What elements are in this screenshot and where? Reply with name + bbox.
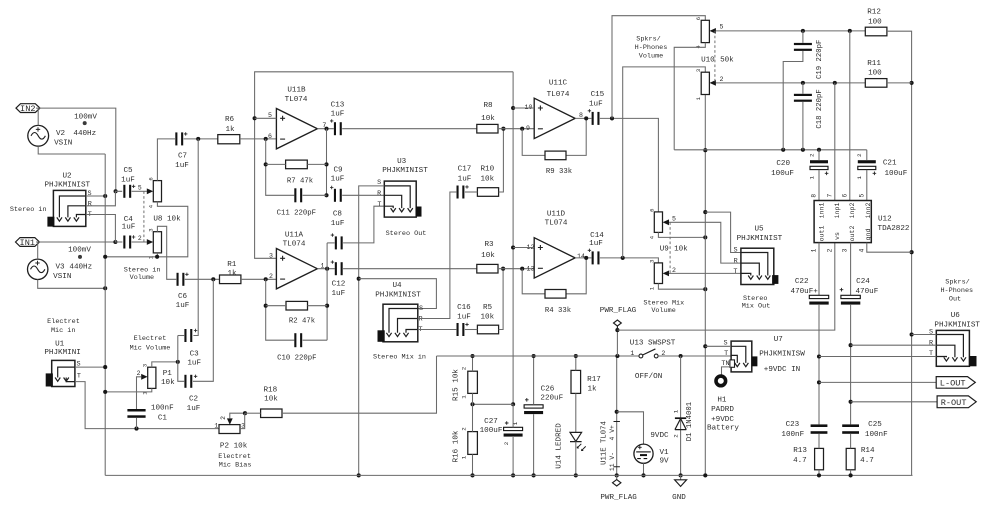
capacitor C11: [294, 188, 302, 202]
svg-text:C24: C24: [856, 278, 870, 286]
pin label 7: [827, 194, 834, 198]
label U7 PHJKMINISW: [759, 351, 805, 359]
source V3 VSIN: [28, 242, 108, 290]
resistor R18: [261, 409, 282, 418]
svg-text:1k: 1k: [587, 386, 597, 394]
label C3: [190, 350, 200, 358]
wire U9a bottom to spine: [658, 232, 707, 239]
label P2 Electret: [218, 453, 251, 461]
svg-text:1: 1: [808, 176, 815, 180]
pin label 2 R15: [461, 366, 468, 370]
capacitor C22: [809, 295, 828, 304]
svg-text:PADRD: PADRD: [711, 406, 734, 414]
svg-text:100: 100: [868, 70, 882, 78]
resistor R7: [286, 160, 308, 169]
wire R15 top: [470, 354, 474, 371]
svg-text:C22: C22: [795, 278, 809, 286]
wire C21 top: [866, 150, 868, 160]
label U4 PHJKMINIST: [375, 291, 421, 299]
label C12: [332, 281, 346, 289]
svg-text:1uF: 1uF: [121, 177, 135, 185]
svg-text:Mic in: Mic in: [51, 327, 75, 335]
svg-text:100mV: 100mV: [68, 246, 91, 254]
jack U7 DC in: [730, 341, 757, 372]
svg-text:U5: U5: [754, 225, 764, 233]
input flag IN2: [16, 104, 40, 115]
wire U11D feedback loop: [522, 258, 586, 294]
svg-text:1: 1: [214, 422, 218, 429]
svg-text:1k: 1k: [225, 126, 235, 134]
pin label 1 U12: [811, 248, 818, 252]
resistor R3: [477, 264, 498, 273]
potentiometer U8B: [147, 228, 162, 259]
wire U8a top to C7: [157, 139, 175, 181]
wire R5 riser to pin13 line: [499, 267, 506, 330]
svg-text:PHJKMINIST: PHJKMINIST: [382, 167, 428, 175]
svg-text:R10: R10: [480, 166, 494, 174]
svg-text:vs: vs: [834, 232, 841, 240]
label C9: [333, 167, 343, 175]
pin label T U1: [77, 372, 81, 380]
label U1 PHJKMINI: [44, 349, 80, 357]
label VSIN: [54, 140, 72, 148]
wire C22 chain down: [817, 305, 821, 425]
label V3 VSIN: [53, 273, 71, 281]
label R10: [480, 166, 494, 174]
svg-text:R5: R5: [483, 304, 493, 312]
svg-text:C17: C17: [458, 166, 472, 174]
capacitor C3: [184, 329, 197, 342]
svg-text:2: 2: [220, 416, 227, 420]
svg-text:Spkrs/: Spkrs/: [636, 35, 660, 43]
wire VS line to U12 pin2: [617, 243, 834, 331]
label R3: [484, 241, 494, 249]
label R3 10k: [481, 252, 495, 260]
jack U5 stereo mix out: [741, 248, 778, 284]
svg-text:IN2: IN2: [20, 104, 35, 114]
svg-text:Electret: Electret: [134, 335, 167, 343]
svg-text:6: 6: [268, 133, 272, 140]
label PWR_FLAG bottom: [600, 494, 637, 502]
pin label R U2: [88, 201, 92, 209]
svg-text:14: 14: [577, 253, 585, 260]
svg-text:10k: 10k: [674, 245, 688, 253]
wire C26 leads: [532, 354, 536, 478]
svg-text:6: 6: [648, 209, 655, 212]
svg-text:C2: C2: [189, 396, 199, 404]
label R6: [225, 116, 235, 124]
svg-text:P1: P1: [163, 370, 173, 378]
wire R12 node to pin6: [849, 31, 851, 201]
label V3: [55, 263, 65, 271]
svg-text:S: S: [87, 190, 91, 198]
label R1 1k: [227, 270, 237, 278]
wire R2 leads: [266, 305, 327, 307]
svg-text:1uF: 1uF: [187, 359, 201, 367]
wire R18 to 9V rail: [282, 356, 437, 413]
pin label S U6: [929, 329, 933, 337]
label U5: [754, 225, 764, 233]
svg-text:5: 5: [138, 184, 142, 191]
wire C16 to R5: [465, 329, 478, 331]
svg-text:1: 1: [630, 350, 634, 357]
wire R12 right drop: [887, 31, 914, 475]
svg-text:1: 1: [673, 409, 680, 413]
wire U11B output drop: [324, 129, 328, 198]
svg-text:1uF: 1uF: [176, 302, 190, 310]
wire R11 right: [887, 82, 912, 84]
svg-text:1uF: 1uF: [457, 314, 471, 322]
svg-text:220uF: 220uF: [540, 395, 563, 403]
label Spkrs/H-Phones Out line1: [945, 279, 969, 287]
label Electret Mic Volume line2: [130, 344, 171, 352]
pin label 2 P1: [137, 370, 141, 377]
label U11D TL074: [545, 220, 568, 228]
label Stereo Out: [386, 230, 427, 238]
svg-text:9V: 9V: [659, 458, 669, 466]
capacitor C16: [457, 323, 469, 336]
vref bus top and left drop: [253, 72, 514, 258]
svg-text:R9 33k: R9 33k: [546, 168, 573, 176]
svg-text:C18 220pF: C18 220pF: [816, 89, 824, 128]
svg-text:2: 2: [138, 235, 142, 242]
svg-text:Mic Volume: Mic Volume: [130, 344, 171, 352]
pin label 1 R16: [461, 455, 468, 459]
svg-text:U8 10k: U8 10k: [153, 215, 181, 223]
label C20 100uF: [771, 170, 794, 178]
label Spkrs/H-Phones Volume line3: [639, 52, 663, 60]
label V1: [659, 449, 669, 457]
pin name vs: [834, 232, 841, 240]
svg-text:S: S: [733, 247, 737, 255]
label U11C TL074: [547, 91, 570, 99]
svg-text:R3: R3: [484, 241, 494, 249]
svg-text:out1: out1: [819, 226, 826, 242]
label C7 1uF: [175, 162, 189, 170]
svg-text:100uF: 100uF: [885, 170, 908, 178]
pin label R U6: [929, 339, 933, 347]
svg-text:100mV: 100mV: [74, 114, 97, 122]
pin label 1 U13: [630, 350, 634, 357]
label R12 100: [868, 18, 882, 26]
svg-text:10k: 10k: [480, 314, 494, 322]
svg-text:2: 2: [461, 427, 468, 431]
wire C19 bottom to gnd line: [783, 51, 803, 150]
label C14: [590, 232, 604, 240]
wire C21 to pin5: [866, 170, 868, 201]
pin label 2 U11A: [269, 273, 273, 280]
label C21 100uF: [885, 170, 908, 178]
wire U6 S to right vertical: [912, 334, 937, 336]
label C23 100nF: [781, 431, 804, 439]
svg-text:out2: out2: [849, 226, 856, 242]
svg-text:PHJKMINI: PHJKMINI: [44, 349, 80, 357]
svg-text:R2 47k: R2 47k: [289, 318, 316, 326]
resistor R2: [286, 301, 308, 310]
svg-text:10: 10: [525, 104, 533, 111]
wire C18 bottom: [802, 102, 804, 150]
switch U13 SWSPST: [639, 349, 658, 358]
label V2: [56, 130, 66, 138]
svg-text:inn1: inn1: [819, 203, 826, 219]
pin label 4 U12: [859, 248, 866, 252]
wire U7 S to spine: [705, 345, 731, 347]
svg-text:L-OUT: L-OUT: [940, 379, 966, 389]
svg-text:1uF: 1uF: [331, 176, 345, 184]
pin label TN U7: [721, 360, 729, 368]
wire R16 leads: [470, 404, 474, 477]
label U14 LEDRED: [556, 423, 564, 469]
capacitor C15: [588, 109, 600, 125]
label C9 1uF: [331, 176, 345, 184]
svg-text:H-Phones: H-Phones: [635, 44, 668, 52]
svg-text:470uF: 470uF: [856, 288, 879, 296]
svg-text:100uF: 100uF: [771, 170, 794, 178]
potentiometer U9B: [648, 260, 669, 291]
svg-text:50k: 50k: [720, 56, 734, 64]
pin label 2 P2: [220, 416, 227, 420]
label R17 1k: [587, 386, 597, 394]
wire vref to divider: [470, 402, 513, 406]
label C2 1uF: [187, 405, 201, 413]
svg-text:C16: C16: [457, 304, 471, 312]
pin label 1 C27: [512, 421, 519, 425]
potentiometer P1: [141, 364, 156, 395]
label 9VDC: [650, 432, 669, 440]
label C5: [123, 167, 133, 175]
label U13 SWSPST: [630, 340, 676, 348]
svg-text:3: 3: [142, 364, 149, 367]
svg-text:1uF: 1uF: [122, 223, 136, 231]
wire C14 node riser to U10b top: [623, 67, 706, 258]
wire U10b wiper line to R11: [716, 81, 865, 85]
svg-text:U11D: U11D: [547, 210, 566, 218]
svg-text:Battery: Battery: [707, 424, 739, 432]
ground bus: [105, 474, 912, 476]
resistor R17: [571, 370, 581, 393]
pin label 5 U8a: [138, 184, 142, 191]
svg-text:1uF: 1uF: [589, 240, 603, 248]
label R15 10k: [453, 369, 461, 401]
pin label 3: [269, 253, 273, 260]
wire C24 chain down: [849, 305, 853, 425]
output flag L-OUT: [936, 377, 975, 389]
svg-text:4: 4: [859, 248, 866, 252]
wire to R-OUT: [851, 401, 938, 403]
svg-text:3: 3: [842, 248, 849, 252]
svg-text:U10: U10: [701, 56, 715, 64]
GND symbol: [675, 475, 687, 486]
label C8: [333, 211, 343, 219]
svg-text:TDA2822: TDA2822: [878, 225, 910, 233]
label R18: [263, 386, 277, 394]
bell marker V3: [78, 255, 82, 259]
svg-text:C13: C13: [331, 101, 345, 109]
svg-text:T: T: [724, 350, 728, 358]
label C13 1uF: [331, 111, 345, 119]
label C7: [178, 153, 187, 161]
wire vref to U11B pin5: [255, 117, 277, 119]
capacitor C20: [810, 160, 828, 175]
svg-text:VSIN: VSIN: [54, 140, 72, 148]
svg-text:U11A: U11A: [285, 231, 304, 239]
svg-text:gnd: gnd: [865, 229, 872, 241]
svg-text:6: 6: [695, 17, 702, 20]
label U9 10k: [660, 245, 688, 253]
bell marker V2: [83, 121, 87, 125]
wire C7 to R6: [184, 137, 218, 141]
wire vref to U11D pin12: [513, 247, 534, 249]
pin name inn1: [819, 203, 826, 219]
label R5: [483, 304, 493, 312]
label D1 1N4001: [686, 401, 694, 441]
svg-text:C9: C9: [333, 167, 343, 175]
pin name out1: [819, 226, 826, 242]
svg-text:11 V-: 11 V-: [609, 452, 616, 471]
label P2 Mic Bias: [219, 461, 252, 469]
label R18 10k: [264, 396, 278, 404]
svg-text:1uF: 1uF: [331, 220, 345, 228]
wire R1 to U11A pin2 node: [241, 277, 277, 281]
wire pin4 to gnd drop: [867, 243, 912, 253]
svg-text:4.7: 4.7: [860, 457, 874, 465]
svg-text:U12: U12: [878, 215, 892, 223]
gang dashed link U10: [714, 31, 716, 83]
label C17: [458, 166, 472, 174]
pin label S U4: [419, 305, 423, 313]
label C23: [786, 421, 800, 429]
wire U10a wiper line to R12: [716, 29, 865, 33]
svg-text:Mic Bias: Mic Bias: [219, 461, 252, 469]
svg-text:U11E TL074: U11E TL074: [601, 420, 609, 464]
pin label 8: [811, 194, 818, 198]
wire C15 node riser to U10a top: [612, 16, 705, 119]
wire V1 to gnd bus: [641, 463, 645, 477]
svg-text:100nF: 100nF: [865, 431, 888, 439]
wire R17 top: [574, 354, 578, 370]
pin label S U2: [87, 190, 91, 198]
svg-text:R14: R14: [861, 447, 875, 455]
wire C24 node to U6 R: [851, 344, 937, 346]
label R9 33k: [546, 168, 573, 176]
svg-text:6: 6: [147, 177, 154, 180]
label U5 PHJKMINIST: [737, 235, 783, 243]
label R13 4.7: [793, 457, 807, 465]
svg-text:1: 1: [811, 248, 818, 252]
svg-text:TL074: TL074: [547, 91, 570, 99]
wire R13 to bus: [817, 470, 821, 478]
label R5 10k: [480, 314, 494, 322]
label C17 1uF: [458, 176, 472, 184]
resistor R10: [477, 188, 498, 197]
wire sleeve branch to U4 S: [359, 279, 437, 309]
label V3 100mV: [68, 246, 91, 254]
pin label 5 U9a: [672, 215, 676, 222]
jack U2 stereo in: [47, 190, 85, 226]
label Electret Mic in line1: [47, 318, 80, 326]
svg-text:U1: U1: [55, 340, 65, 348]
label R14 4.7: [860, 457, 874, 465]
svg-text:2: 2: [856, 153, 863, 157]
wire C12 to R3: [343, 268, 477, 270]
svg-text:H-Phones: H-Phones: [940, 287, 973, 295]
svg-text:R1: R1: [227, 261, 237, 269]
svg-text:10k: 10k: [264, 396, 278, 404]
label U11B TL074: [285, 96, 308, 104]
svg-text:PHJKMINIST: PHJKMINIST: [934, 322, 980, 330]
svg-text:1k: 1k: [227, 270, 237, 278]
svg-text:inp1: inp1: [834, 203, 841, 219]
wire pin3 to C24: [850, 243, 852, 296]
label C4: [124, 216, 134, 224]
svg-text:U6: U6: [951, 312, 961, 320]
svg-text:U2: U2: [62, 172, 72, 180]
PWR_FLAG bottom: [613, 475, 621, 486]
pin label 1 C20: [808, 176, 815, 180]
label C19 220pF: [816, 40, 824, 79]
label C21: [883, 159, 897, 167]
wire U9b bottom to spine: [658, 284, 707, 292]
jack U4 stereo mix in: [378, 304, 418, 342]
label Stereo in Volume line1: [124, 266, 161, 274]
label U11B: [287, 87, 306, 95]
ground spine left: [104, 154, 106, 475]
wire C22 node to U6 T: [819, 356, 936, 358]
label C12 1uF: [331, 290, 345, 298]
svg-text:3: 3: [648, 260, 655, 263]
capacitor C9: [330, 186, 342, 202]
label P1 10k: [161, 379, 175, 387]
potentiometer U9A: [648, 209, 669, 240]
wire C17 to R10: [465, 191, 478, 193]
svg-text:C3: C3: [190, 350, 200, 358]
wire V+ node to battery: [617, 412, 644, 444]
wire U11B fb drop: [264, 139, 295, 195]
svg-text:Volume: Volume: [651, 307, 675, 315]
label C6 1uF: [176, 302, 190, 310]
pin label 1 D1: [673, 409, 680, 413]
jack U6 phones out: [936, 330, 976, 366]
svg-text:+9VDC IN: +9VDC IN: [764, 366, 800, 374]
svg-text:9VDC: 9VDC: [650, 432, 669, 440]
svg-text:7: 7: [827, 194, 834, 198]
svg-text:V3: V3: [55, 263, 65, 271]
svg-text:C6: C6: [178, 293, 188, 301]
jack U1 electret mic: [46, 360, 75, 386]
svg-text:U9: U9: [660, 245, 670, 253]
label U11E TL074: [601, 420, 609, 464]
label H1 Battery: [707, 424, 739, 432]
svg-text:Electret: Electret: [47, 318, 80, 326]
svg-text:100: 100: [868, 18, 882, 26]
wire U11B output node: [317, 127, 334, 131]
label C25: [868, 421, 882, 429]
pin label 11 V-: [609, 452, 616, 471]
label C18 220pF: [816, 89, 824, 128]
PWR_FLAG top: [614, 320, 622, 356]
pin label 1 U11A: [321, 263, 325, 270]
pin label 4 V+: [609, 425, 616, 441]
pin label T U5: [733, 268, 737, 276]
wire LED to gnd bus: [574, 442, 578, 478]
svg-text:10k: 10k: [480, 176, 494, 184]
label C10 220pF: [277, 354, 316, 362]
svg-text:C5: C5: [123, 167, 133, 175]
label Stereo in Volume line2: [130, 274, 154, 282]
wire C27 leads: [511, 404, 515, 477]
pin label 3 P2: [241, 422, 245, 429]
wire U8b top to C6: [157, 226, 176, 279]
